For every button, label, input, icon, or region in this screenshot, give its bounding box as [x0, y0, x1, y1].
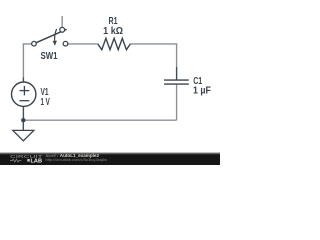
CircuitLab logo	[10, 154, 43, 164]
capacitor C1	[164, 80, 189, 84]
wire	[176, 67, 178, 80]
svg-text:SW1: SW1	[41, 51, 58, 62]
watermark bar	[0, 152, 220, 153]
svg-text:1 µF: 1 µF	[193, 85, 211, 96]
ground	[13, 120, 34, 141]
wire	[130, 44, 176, 67]
svg-text:1 kΩ: 1 kΩ	[103, 26, 123, 37]
voltage source V1	[12, 82, 36, 106]
wire	[23, 44, 31, 78]
svg-text:1 V: 1 V	[41, 97, 51, 108]
wire	[68, 43, 98, 45]
switch SW1	[32, 27, 68, 46]
svg-text:LAB: LAB	[31, 158, 43, 164]
resistor R1	[98, 38, 131, 49]
wire	[176, 85, 178, 121]
junction node	[21, 118, 25, 122]
wire	[22, 106, 24, 120]
wire	[61, 16, 63, 27]
wire	[22, 78, 24, 83]
svg-text:http://circuitlab.com/c/5u3tuy: http://circuitlab.com/c/5u3tuy3bq6w	[46, 157, 108, 162]
wire	[23, 119, 176, 121]
